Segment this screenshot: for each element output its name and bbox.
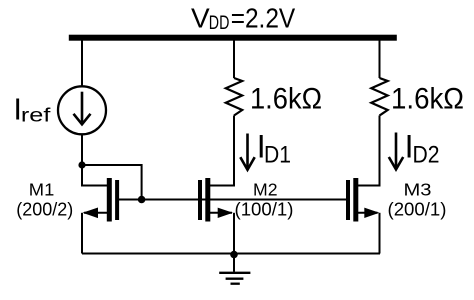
svg-text:M1: M1 xyxy=(29,179,54,199)
svg-text:D2: D2 xyxy=(413,142,440,169)
svg-text:1.6kΩ: 1.6kΩ xyxy=(391,83,464,116)
svg-text:M3: M3 xyxy=(404,179,432,199)
svg-text:(100/1): (100/1) xyxy=(235,200,294,220)
svg-text:D1: D1 xyxy=(264,142,291,169)
svg-text:=2.2V: =2.2V xyxy=(231,2,296,33)
svg-text:M2: M2 xyxy=(253,179,278,199)
svg-text:DD: DD xyxy=(209,13,230,34)
svg-text:1.6kΩ: 1.6kΩ xyxy=(250,83,322,116)
svg-text:ref: ref xyxy=(21,106,51,127)
svg-text:V: V xyxy=(191,2,210,33)
svg-text:(200/1): (200/1) xyxy=(388,200,447,220)
svg-text:(200/2): (200/2) xyxy=(16,200,73,220)
